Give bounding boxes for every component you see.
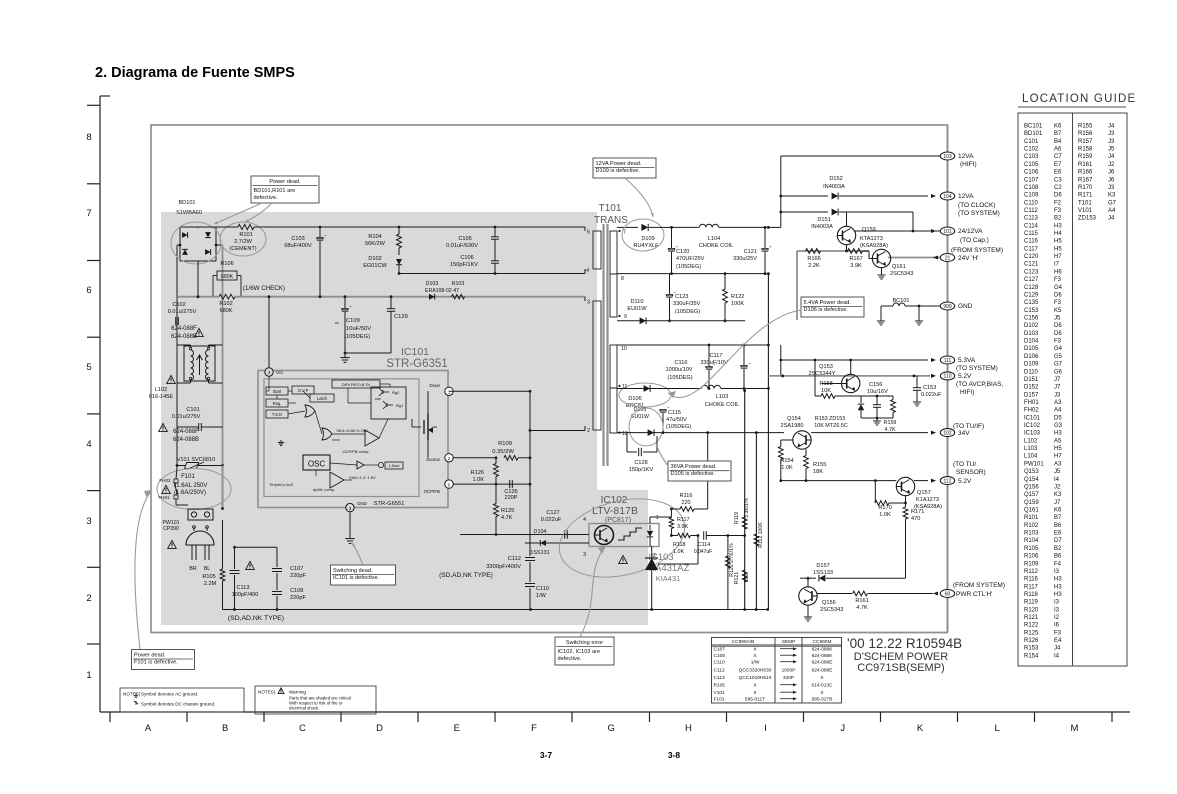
svg-text:OCP/FB comp.: OCP/FB comp. <box>343 449 370 454</box>
svg-text:3: 3 <box>86 516 91 527</box>
svg-text:R158: R158 <box>819 381 832 387</box>
svg-text:R166: R166 <box>1078 170 1093 176</box>
power plug <box>186 531 214 545</box>
wire 24VH gray <box>797 250 869 252</box>
svg-text:IC102: IC102 <box>1024 423 1041 429</box>
svg-text:C112: C112 <box>714 668 725 674</box>
svg-text:R119: R119 <box>734 512 740 524</box>
wire winding7 top rail <box>617 226 638 228</box>
svg-text:5.3VA: 5.3VA <box>958 357 976 364</box>
svg-text:defective.: defective. <box>254 195 278 201</box>
svg-text:G7: G7 <box>1108 200 1117 206</box>
svg-text:(105DEG): (105DEG) <box>666 424 691 430</box>
svg-text:D109 is defective.: D109 is defective. <box>596 168 641 174</box>
vertical 707 from 34V <box>707 433 709 509</box>
svg-text:R106: R106 <box>1024 554 1039 560</box>
svg-text:D151: D151 <box>817 217 830 223</box>
svg-text:D6: D6 <box>1054 193 1062 199</box>
svg-text:C105: C105 <box>1024 162 1039 168</box>
svg-text:C102: C102 <box>1024 147 1039 153</box>
resistor R159 <box>891 400 896 413</box>
svg-text:T.S.D: T.S.D <box>272 412 282 417</box>
svg-text:BR: BR <box>189 566 196 572</box>
wire PWR CTL <box>817 593 852 595</box>
svg-text:680K: 680K <box>219 308 232 314</box>
svg-text:L102: L102 <box>155 387 167 393</box>
svg-text:O.V.P: O.V.P <box>298 388 309 393</box>
svg-text:CC971SB(SEMP): CC971SB(SEMP) <box>857 662 944 674</box>
svg-text:C135: C135 <box>1024 300 1039 306</box>
svg-text:D106: D106 <box>628 396 641 402</box>
svg-text:C112: C112 <box>508 556 521 562</box>
wire 12V return <box>617 273 768 275</box>
vertical R119 line <box>744 391 746 610</box>
svg-text:C106: C106 <box>460 255 473 261</box>
svg-text:BD101: BD101 <box>1024 131 1043 137</box>
svg-text:(TO TU/: (TO TU/ <box>953 461 976 468</box>
svg-text:BL: BL <box>204 566 210 572</box>
svg-text:21: 21 <box>945 255 951 261</box>
svg-text:0.01uF/630V: 0.01uF/630V <box>446 243 478 249</box>
svg-text:J3: J3 <box>1108 131 1115 137</box>
svg-text:6: 6 <box>86 285 91 296</box>
svg-text:NOTES): NOTES) <box>123 692 141 697</box>
IC102 stair symbol <box>618 528 642 540</box>
svg-text:D6: D6 <box>1054 331 1062 337</box>
svg-text:(TO TU/IF): (TO TU/IF) <box>953 423 984 430</box>
resistor R101 <box>238 224 254 229</box>
svg-text:R126: R126 <box>1024 638 1039 644</box>
svg-text:R120 2.7K/1%: R120 2.7K/1% <box>729 543 735 577</box>
svg-text:D151: D151 <box>1024 377 1039 383</box>
wire 34V rail <box>617 432 784 434</box>
svg-text:QCC1010H510: QCC1010H510 <box>739 675 772 681</box>
svg-text:D103: D103 <box>1024 331 1039 337</box>
svg-text:24V 'H': 24V 'H' <box>958 255 979 262</box>
svg-text:K: K <box>917 723 924 734</box>
svg-text:Warning: Warning <box>289 690 306 695</box>
svg-text:BD101,R101 are: BD101,R101 are <box>254 188 296 194</box>
svg-text:(FROM SYSTEM): (FROM SYSTEM) <box>953 582 1005 589</box>
svg-text:B7: B7 <box>1054 131 1062 137</box>
wire 34V out <box>811 432 928 434</box>
svg-text:T1.6AL 250V: T1.6AL 250V <box>173 483 208 489</box>
svg-text:C112: C112 <box>1024 208 1039 214</box>
svg-text:E: E <box>454 723 460 734</box>
left ruler ticks <box>87 104 100 106</box>
svg-text:102: 102 <box>943 430 952 436</box>
svg-text:Q154: Q154 <box>787 416 801 422</box>
svg-text:624-088F: 624-088F <box>171 326 197 332</box>
svg-text:999: 999 <box>943 304 952 310</box>
svg-text:D105: D105 <box>1024 346 1039 352</box>
svg-text:R109: R109 <box>498 441 512 447</box>
svg-text:L103: L103 <box>716 394 728 400</box>
svg-text:IN4003A: IN4003A <box>823 184 845 190</box>
wire 12VA HIFI <box>781 155 940 157</box>
svg-text:330u/25V: 330u/25V <box>733 256 757 262</box>
svg-text:H3: H3 <box>1054 584 1062 590</box>
diode D109 <box>641 224 648 231</box>
svg-text:1: 1 <box>86 670 91 681</box>
svg-text:330P: 330P <box>783 675 794 681</box>
callout switching dead <box>331 565 396 585</box>
IC101 gates <box>305 405 315 417</box>
svg-text:R101: R101 <box>1024 515 1039 521</box>
svg-text:H: H <box>685 723 692 734</box>
IC101 outer box <box>258 371 448 508</box>
svg-text:J3: J3 <box>1108 139 1115 145</box>
svg-text:624-088E: 624-088E <box>812 668 833 674</box>
svg-text:Switching error: Switching error <box>566 640 603 646</box>
wire C109 C129 join <box>345 352 391 354</box>
svg-text:K6: K6 <box>1054 124 1062 130</box>
left ruler line <box>99 96 101 712</box>
svg-text:7: 7 <box>623 230 626 236</box>
svg-text:G3: G3 <box>1054 423 1063 429</box>
svg-text:(1/6W CHECK): (1/6W CHECK) <box>243 285 285 292</box>
svg-text:I2: I2 <box>1054 615 1060 621</box>
svg-text:C114: C114 <box>1024 223 1039 229</box>
bottom ruler ticks <box>109 712 111 722</box>
ground Q156 <box>807 605 809 614</box>
main DC- bus wire <box>177 296 219 298</box>
ground C109 <box>344 354 346 358</box>
svg-text:R118: R118 <box>673 542 686 548</box>
svg-text:J3: J3 <box>1108 185 1115 191</box>
svg-text:(HIFI): (HIFI) <box>960 161 977 168</box>
svg-text:60: 60 <box>945 591 951 597</box>
svg-text:I3: I3 <box>1054 607 1060 613</box>
svg-text:ERA108-02 47: ERA108-02 47 <box>425 288 459 294</box>
callout 5.4VA power dead <box>801 297 864 317</box>
IC101 pin 5 OCP/FB <box>445 480 453 488</box>
svg-text:H3: H3 <box>1054 592 1062 598</box>
top DC bus wire <box>198 226 238 228</box>
svg-text:E7: E7 <box>1054 162 1062 168</box>
svg-text:T101: T101 <box>1078 200 1092 206</box>
diode D110 <box>640 317 647 324</box>
svg-text:R155: R155 <box>813 462 826 468</box>
svg-text:C108: C108 <box>714 653 726 659</box>
svg-text:R116: R116 <box>680 493 693 499</box>
svg-text:10K MTZ6.5C: 10K MTZ6.5C <box>814 423 848 429</box>
svg-text:2SC5344Y: 2SC5344Y <box>808 371 835 377</box>
svg-text:5: 5 <box>86 362 91 373</box>
svg-text:220P: 220P <box>504 495 517 501</box>
svg-text:C113: C113 <box>1024 216 1039 222</box>
svg-text:I6: I6 <box>1054 623 1060 629</box>
svg-text:180: 180 <box>744 574 750 583</box>
svg-text:EU01W: EU01W <box>631 414 649 420</box>
svg-text:A4: A4 <box>1054 408 1062 414</box>
IC101 inner box <box>264 379 419 497</box>
choke L104 <box>699 224 718 227</box>
wire 5.2V sensor <box>781 480 897 482</box>
svg-text:Q153: Q153 <box>819 364 833 370</box>
wire opto feed upper <box>460 534 587 536</box>
callout power dead F101 <box>132 650 195 670</box>
T101 secondary winding 12 <box>610 388 617 433</box>
svg-text:1: 1 <box>656 515 659 521</box>
svg-text:K5: K5 <box>1054 308 1062 314</box>
svg-text:FH02: FH02 <box>159 478 171 483</box>
svg-text:G: G <box>608 723 615 734</box>
svg-text:624-088F: 624-088F <box>173 429 199 435</box>
svg-text:C110: C110 <box>536 586 549 592</box>
svg-text:C129: C129 <box>394 314 408 320</box>
wire snubber return <box>399 273 585 275</box>
svg-text:K3: K3 <box>1054 492 1062 498</box>
svg-text:Q159: Q159 <box>862 227 876 233</box>
svg-text:D6: D6 <box>1054 293 1062 299</box>
svg-text:(SD,AD,NK TYPE): (SD,AD,NK TYPE) <box>439 572 493 579</box>
svg-text:3: 3 <box>587 300 590 306</box>
terminal 111 5.3VA <box>940 356 954 364</box>
svg-text:Q161: Q161 <box>892 264 906 270</box>
svg-text:12VA: 12VA <box>958 153 974 160</box>
svg-text:D6: D6 <box>1054 323 1062 329</box>
svg-text:A3: A3 <box>1054 400 1062 406</box>
svg-text:C127: C127 <box>1024 277 1039 283</box>
svg-text:E4: E4 <box>1054 638 1062 644</box>
svg-text:KIA431: KIA431 <box>656 574 681 583</box>
svg-text:IN4003A: IN4003A <box>811 224 833 230</box>
resistor R122 <box>723 289 728 303</box>
svg-text:1.0K: 1.0K <box>472 477 484 483</box>
svg-text:R155: R155 <box>1078 124 1093 130</box>
svg-text:G4: G4 <box>1054 346 1063 352</box>
svg-text:G5: G5 <box>1054 354 1063 360</box>
svg-text:I3: I3 <box>1054 600 1060 606</box>
svg-text:Power dead.: Power dead. <box>269 179 301 185</box>
svg-text:7: 7 <box>86 208 91 219</box>
IC102 highlight ellipse <box>551 487 693 590</box>
svg-text:I3: I3 <box>1054 569 1060 575</box>
IC101 comparator 2 <box>330 472 344 488</box>
svg-text:J6: J6 <box>1108 177 1115 183</box>
svg-text:R117: R117 <box>1024 584 1039 590</box>
notes box warning <box>255 686 376 714</box>
svg-text:T101: T101 <box>599 203 622 214</box>
svg-text:C3: C3 <box>1054 177 1062 183</box>
svg-text:CHOKE COIL: CHOKE COIL <box>705 402 740 408</box>
svg-text:1000P: 1000P <box>782 668 796 674</box>
svg-text:8: 8 <box>86 132 91 143</box>
svg-text:C116: C116 <box>1024 239 1039 245</box>
capacitor C120 <box>668 248 674 249</box>
svg-text:104: 104 <box>943 194 952 200</box>
svg-text:2: 2 <box>587 428 590 434</box>
svg-text:C106: C106 <box>1024 170 1039 176</box>
svg-text:C115: C115 <box>1024 231 1039 237</box>
svg-text:Q157: Q157 <box>917 490 931 496</box>
diode D151 <box>781 211 828 213</box>
svg-text:C102: C102 <box>172 302 185 308</box>
svg-text:10: 10 <box>621 346 627 352</box>
svg-text:C105: C105 <box>458 236 471 242</box>
svg-text:FH02: FH02 <box>1024 408 1039 414</box>
svg-text:CP390: CP390 <box>163 526 179 532</box>
svg-text:IC102, IC103 are: IC102, IC103 are <box>558 649 601 655</box>
svg-text:J4: J4 <box>1054 646 1061 652</box>
resistor R167 <box>848 249 863 254</box>
choke L103 <box>701 385 720 388</box>
wire cap top link <box>235 546 278 548</box>
capacitor C117 <box>741 365 747 366</box>
svg-text:R161: R161 <box>1078 162 1093 168</box>
svg-text:R109: R109 <box>1024 561 1039 567</box>
svg-text:D109: D109 <box>1024 362 1039 368</box>
IC102 opto box <box>589 524 659 547</box>
svg-text:J4: J4 <box>1108 216 1115 222</box>
svg-text:1/W: 1/W <box>751 660 760 666</box>
svg-text:R167: R167 <box>849 256 862 262</box>
svg-text:EU01W: EU01W <box>627 306 647 312</box>
svg-text:H7: H7 <box>1054 254 1062 260</box>
svg-text:D102: D102 <box>368 256 381 262</box>
svg-text:Rg1: Rg1 <box>396 403 404 408</box>
T101 core <box>602 224 604 466</box>
wire 5.3VA <box>781 359 928 361</box>
svg-text:5.2V: 5.2V <box>958 373 972 380</box>
svg-text:STR-G6551: STR-G6551 <box>374 501 405 507</box>
svg-text:C127: C127 <box>546 510 559 516</box>
svg-text:(1.6A/250V): (1.6A/250V) <box>174 490 206 496</box>
svg-text:Reg.: Reg. <box>273 401 282 406</box>
svg-text:QCC3320H630: QCC3320H630 <box>739 668 772 674</box>
svg-text:1.0K: 1.0K <box>781 465 793 471</box>
svg-text:J2: J2 <box>1108 162 1115 168</box>
svg-text:12VA: 12VA <box>958 193 974 200</box>
svg-text:LOCATION GUIDE: LOCATION GUIDE <box>1022 93 1136 105</box>
svg-text:(SD,AD,NK TYPE): (SD,AD,NK TYPE) <box>228 615 284 622</box>
svg-text:defective.: defective. <box>558 656 582 662</box>
diode D106 <box>644 385 651 392</box>
svg-text:R116: R116 <box>1024 577 1039 583</box>
svg-text:101: 101 <box>943 229 952 235</box>
svg-text:1.8mA: 1.8mA <box>389 464 400 468</box>
svg-text:H5: H5 <box>1054 246 1062 252</box>
svg-text:D104: D104 <box>534 529 547 535</box>
wire 5.2V gray rail <box>768 375 930 377</box>
svg-text:A6: A6 <box>1054 147 1062 153</box>
svg-text:OCP/FB: OCP/FB <box>424 489 440 494</box>
ground BC101 right <box>918 318 920 321</box>
svg-text:C101: C101 <box>186 407 199 413</box>
svg-text:C120: C120 <box>676 249 689 255</box>
svg-text:J: J <box>840 723 845 734</box>
svg-text:C128: C128 <box>1024 285 1039 291</box>
svg-text:0.01u/275V: 0.01u/275V <box>172 414 201 420</box>
svg-text:Drain: Drain <box>430 383 441 388</box>
svg-text:2.2M: 2.2M <box>204 581 217 587</box>
svg-text:I4: I4 <box>1054 477 1060 483</box>
svg-text:H5: H5 <box>1054 446 1062 452</box>
svg-text:3-7: 3-7 <box>540 750 553 760</box>
vertical bus 781 <box>780 156 782 227</box>
junction dots rails <box>743 389 746 392</box>
svg-text:(TO AVCP,BIAS,: (TO AVCP,BIAS, <box>956 381 1004 388</box>
capacitor C156 <box>873 404 881 406</box>
svg-text:G6: G6 <box>1054 369 1063 375</box>
svg-text:D106 is defective.: D106 is defective. <box>804 307 849 313</box>
svg-text:2SC5343: 2SC5343 <box>890 271 913 277</box>
IC101 pin 2 Source <box>445 454 453 462</box>
wire Q153 emitter <box>860 376 940 384</box>
svg-text:100pF/400: 100pF/400 <box>232 592 259 598</box>
svg-text:2: 2 <box>86 593 91 604</box>
svg-text:L: L <box>995 723 1000 734</box>
svg-text:'00 12.22 R10594B: '00 12.22 R10594B <box>847 636 962 651</box>
IC103 ref wire <box>652 551 696 553</box>
svg-text:F4: F4 <box>1054 561 1062 567</box>
wire AC right vertical <box>222 245 224 509</box>
svg-text:C108: C108 <box>290 588 303 594</box>
svg-text:FH01: FH01 <box>1024 400 1039 406</box>
svg-text:CC990M: CC990M <box>813 639 832 645</box>
svg-text:F3: F3 <box>1054 339 1062 345</box>
svg-text:5: 5 <box>448 482 451 487</box>
zener ZD153 <box>858 404 864 410</box>
svg-text:D102: D102 <box>1024 323 1039 329</box>
svg-text:dp&lt; comp.: dp&lt; comp. <box>313 487 335 492</box>
svg-text:624-088K: 624-088K <box>812 647 834 653</box>
warning mark <box>168 541 177 549</box>
ground BC101 left <box>880 318 882 321</box>
svg-text:56K/2W: 56K/2W <box>365 241 386 247</box>
svg-text:V101: V101 <box>714 690 726 696</box>
svg-text:C101: C101 <box>1024 139 1039 145</box>
vertical R120 <box>727 536 729 610</box>
svg-text:D152: D152 <box>1024 385 1039 391</box>
svg-text:C123: C123 <box>675 294 688 300</box>
svg-text:H3: H3 <box>1054 577 1062 583</box>
svg-text:3: 3 <box>583 552 586 558</box>
svg-text:R106: R106 <box>220 261 233 267</box>
capacitor C115 <box>660 409 666 410</box>
capacitor C107 <box>276 547 278 567</box>
svg-text:18K: 18K <box>813 469 823 475</box>
transistor Q159 <box>837 226 855 244</box>
svg-text:J7: J7 <box>1054 377 1061 383</box>
IC102 phototransistor <box>595 526 614 545</box>
IC101 pin 4 Vcc <box>265 368 273 376</box>
svg-text:C113: C113 <box>714 675 725 681</box>
svg-text:C121: C121 <box>1024 262 1039 268</box>
svg-text:4.7K: 4.7K <box>501 515 513 521</box>
svg-text:L104: L104 <box>708 236 720 242</box>
diode D105 <box>648 429 655 436</box>
svg-text:E6: E6 <box>1054 531 1062 537</box>
wire drain down <box>529 391 531 556</box>
callout 36VA power dead <box>668 461 731 481</box>
svg-text:C121: C121 <box>744 249 757 255</box>
svg-text:1.0K: 1.0K <box>879 512 891 518</box>
vertical gray 797 <box>796 251 798 320</box>
svg-text:C115: C115 <box>668 410 681 416</box>
resistor R170 <box>875 501 889 506</box>
svg-text:R167: R167 <box>1078 177 1093 183</box>
svg-text:J5: J5 <box>1108 147 1115 153</box>
wire 24V branch <box>912 212 914 231</box>
svg-text:(105DEG): (105DEG) <box>675 309 700 315</box>
replacement table <box>712 638 842 704</box>
svg-text:R105: R105 <box>202 574 215 580</box>
svg-text:H4: H4 <box>1054 231 1062 237</box>
svg-text:H3: H3 <box>1054 431 1062 437</box>
svg-text:F101: F101 <box>181 474 195 480</box>
